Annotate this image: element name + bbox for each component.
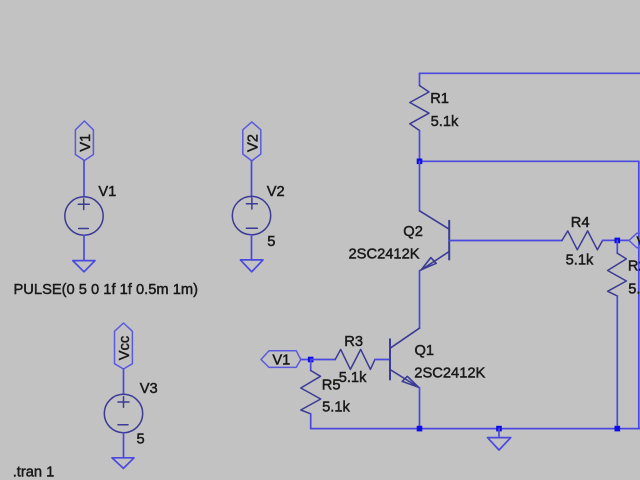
resistor R2 bbox=[608, 253, 627, 296]
svg-text:R2: R2 bbox=[628, 259, 640, 275]
svg-text:R3: R3 bbox=[344, 334, 363, 350]
voltage source V3 circle bbox=[104, 394, 142, 432]
wire node to R3 bbox=[311, 359, 336, 361]
wire R3 to Q1 base bbox=[375, 359, 390, 361]
resistor R5 bbox=[301, 371, 321, 414]
svg-text:V1: V1 bbox=[98, 184, 116, 200]
svg-text:5.1k: 5.1k bbox=[628, 281, 640, 297]
svg-text:V: V bbox=[637, 234, 640, 250]
net flag Vcc bbox=[115, 323, 133, 369]
transistor Q2 bbox=[420, 211, 450, 271]
wire rail to ground stub bbox=[498, 429, 500, 438]
V2 minus sign bbox=[246, 227, 257, 229]
voltage source V1 circle bbox=[65, 197, 103, 235]
wire Q2 base to R4 bbox=[449, 240, 562, 242]
resistor R1 bbox=[410, 86, 429, 131]
svg-text:R5: R5 bbox=[322, 378, 341, 394]
net flag Vout (clipped at right edge) bbox=[629, 233, 640, 248]
svg-text:Q2: Q2 bbox=[403, 224, 423, 240]
svg-text:5.1k: 5.1k bbox=[322, 399, 350, 415]
wire R5 to bottom rail bbox=[310, 414, 312, 429]
node at R1 bottom bbox=[417, 159, 423, 165]
svg-text:V1: V1 bbox=[78, 134, 94, 152]
ground (below V2) bbox=[240, 260, 263, 272]
svg-text:5.1k: 5.1k bbox=[566, 252, 594, 268]
wire node to right edge bbox=[420, 160, 639, 162]
V2 plus sign bbox=[246, 199, 257, 210]
svg-text:V3: V3 bbox=[140, 381, 158, 397]
svg-text:.tran 1: .tran 1 bbox=[13, 465, 55, 480]
wire node to Q2 collector bbox=[419, 161, 421, 211]
node V1/R3/R5 bbox=[308, 357, 314, 363]
ground (below V3) bbox=[112, 458, 134, 469]
net flag V1 (input, horizontal hexagon) bbox=[261, 351, 301, 368]
svg-text:5.1k: 5.1k bbox=[431, 114, 459, 130]
svg-text:5.1k: 5.1k bbox=[339, 370, 367, 386]
svg-text:2SC2412K: 2SC2412K bbox=[349, 246, 420, 262]
wire node to R5 bbox=[310, 360, 312, 371]
wire node to R2 bbox=[616, 240, 618, 253]
resistor R3 bbox=[335, 349, 375, 369]
wire V2 bottom to ground bbox=[251, 235, 253, 260]
wire top rail to R1 bbox=[419, 73, 421, 85]
wire R1 to node bbox=[419, 131, 421, 162]
wire top rail bbox=[420, 72, 640, 74]
ground (bottom rail) bbox=[488, 438, 511, 450]
node rail / R2 bbox=[615, 426, 621, 432]
svg-text:PULSE(0 5 0 1f 1f 0.5m 1m): PULSE(0 5 0 1f 1f 0.5m 1m) bbox=[14, 282, 199, 298]
wire R2 to bottom rail bbox=[616, 296, 618, 429]
wire right vertical bbox=[638, 161, 640, 428]
svg-text:V1: V1 bbox=[272, 352, 290, 368]
svg-text:V2: V2 bbox=[245, 134, 261, 152]
V3 plus sign bbox=[118, 397, 129, 408]
svg-text:V2: V2 bbox=[267, 184, 285, 200]
svg-text:Q1: Q1 bbox=[415, 343, 435, 359]
V1 plus sign bbox=[78, 199, 89, 210]
node Q1 emitter / rail bbox=[417, 426, 423, 432]
wire flag Vcc to source top bbox=[123, 369, 125, 394]
wire Q1 emitter to rail bbox=[419, 388, 421, 429]
svg-text:5: 5 bbox=[137, 432, 145, 448]
wire V1 bottom to ground bbox=[83, 235, 85, 260]
svg-text:5: 5 bbox=[267, 234, 275, 250]
wire V3 bottom to ground bbox=[123, 433, 125, 458]
svg-text:R4: R4 bbox=[571, 215, 590, 231]
svg-text:2SC2412K: 2SC2412K bbox=[414, 365, 485, 381]
node R4/R2/Vout bbox=[615, 238, 621, 244]
net flag V1 (vertical hexagon) bbox=[75, 121, 93, 161]
voltage source V2 circle bbox=[232, 196, 270, 234]
V1 minus sign bbox=[79, 228, 89, 230]
svg-text:R1: R1 bbox=[430, 91, 449, 107]
svg-text:Vcc: Vcc bbox=[117, 336, 133, 360]
net flag V2 bbox=[243, 122, 261, 161]
wire Q2 emitter to Q1 collector bbox=[419, 271, 421, 329]
wire flag V2 to source top bbox=[251, 161, 253, 197]
wire flag V1 to source top bbox=[83, 161, 85, 198]
node rail / ground bbox=[496, 426, 502, 432]
V3 minus sign bbox=[118, 424, 128, 426]
ground (below V1) bbox=[73, 261, 95, 272]
wire R4 to node bbox=[603, 239, 629, 241]
wire flag to node bbox=[301, 359, 311, 361]
